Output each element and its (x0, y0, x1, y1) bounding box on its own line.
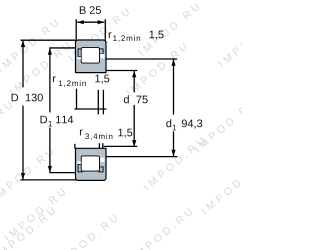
label 94,3 (182, 120, 202, 129)
d dimension line lower segment (133, 105, 135, 147)
cage pocket left (lower) (78, 164, 82, 172)
d1 extension line top (106, 58, 177, 60)
label D (12, 94, 19, 102)
watermark (194, 99, 256, 153)
d1 extension line bottom (106, 156, 177, 158)
d extension line bottom (104, 145, 138, 147)
watermark (0, 101, 13, 155)
recess notch right (lower) (100, 158, 104, 162)
arrowheads (21, 20, 176, 180)
r12 value leader vline b (102, 90, 104, 115)
label D1 D (41, 116, 48, 124)
r34 leader vline a (98, 143, 100, 148)
label d (124, 95, 129, 103)
D1 extension line top (49, 47, 76, 49)
label D1 sub 1 (49, 121, 52, 127)
watermark (0, 207, 56, 250)
label 25 (90, 6, 101, 14)
r34 leader vline b (102, 143, 104, 148)
r12 value leader vline a (97, 90, 99, 115)
D1 arrow top (48, 48, 52, 55)
D arrow bottom (21, 173, 25, 180)
label d1 d (166, 119, 171, 127)
watermark (131, 208, 193, 250)
d1 dimension line lower segment (173, 131, 175, 156)
cage pocket right (lower) (99, 167, 103, 172)
label 75 (136, 96, 147, 104)
D1 extension line bottom (49, 172, 76, 174)
cage pocket right (upper) (99, 49, 103, 54)
label d1 sub 1 (173, 125, 176, 131)
d dimension line upper segment (133, 71, 135, 92)
label 1,5 (bottom) (118, 129, 132, 138)
D1 dimension line lower segment (49, 128, 51, 173)
r34 leader vline left (74, 144, 76, 149)
watermark (126, 43, 188, 97)
outer+inner ring body (lower section) (76, 148, 107, 180)
watermark (9, 42, 71, 96)
B extension line left (75, 19, 77, 39)
d extension line top (106, 70, 137, 72)
B extension line right (104, 19, 106, 40)
label r (top) (109, 32, 112, 38)
label 3,4min (85, 133, 112, 140)
D dimension line upper segment (22, 41, 24, 88)
D extension line top (21, 39, 76, 41)
label 1,2min (middle) (59, 80, 86, 87)
B arrow right (98, 20, 105, 24)
B dimension line (77, 21, 104, 23)
d1 arrow bottom (171, 150, 175, 157)
cage pocket left (upper) (78, 49, 82, 57)
label B (80, 6, 86, 14)
label 114 (56, 116, 73, 124)
watermark (138, 3, 200, 57)
D1 dimension line upper segment (49, 48, 51, 112)
D dimension line lower segment (22, 106, 24, 180)
watermark (0, 148, 54, 202)
d1 dimension line upper segment (173, 59, 175, 114)
D1 arrow bottom (48, 166, 52, 173)
D extension line bottom (21, 179, 76, 181)
recess notch left (lower) (78, 161, 81, 164)
watermark (0, 19, 59, 73)
label 1,2min (top) (113, 35, 140, 42)
D arrow top (21, 40, 25, 47)
watermark (201, 161, 263, 215)
d arrow bottom (132, 140, 136, 147)
watermark (68, 8, 130, 62)
d1 arrow top (171, 59, 175, 66)
r12 leader vline (76, 89, 78, 110)
outer+inner ring body (upper section) (76, 40, 107, 73)
label 1,5 (top) (150, 31, 164, 40)
recess notch left (upper) (78, 57, 81, 60)
label 1,5 (middle) (95, 75, 109, 84)
roller (lower) (81, 156, 99, 171)
axis line under sections (74, 108, 106, 110)
B arrow left (77, 20, 84, 24)
label r (middle) (53, 76, 56, 82)
recess notch right (upper) (100, 54, 104, 58)
label 130 (26, 94, 43, 102)
watermark (143, 137, 205, 191)
roller (upper) (81, 48, 99, 64)
watermark (56, 214, 118, 250)
label r34 r (80, 129, 83, 135)
watermark (218, 14, 280, 68)
watermark (4, 188, 66, 242)
d arrow top (132, 71, 136, 78)
